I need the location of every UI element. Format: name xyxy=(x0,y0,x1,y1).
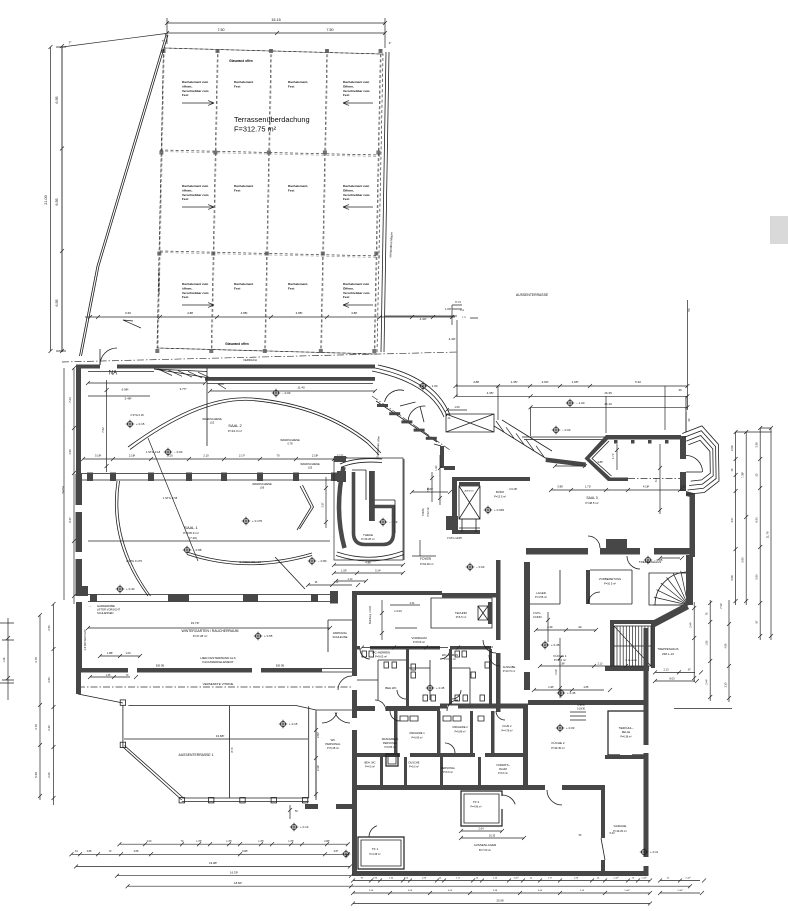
svg-text:4.95: 4.95 xyxy=(724,643,727,648)
wc fixtures xyxy=(362,651,367,657)
bottom outer walls xyxy=(352,791,357,876)
svg-text:19.08³: 19.08³ xyxy=(209,861,217,865)
svg-text:→: → xyxy=(89,604,92,608)
svg-text:+ 0.55: + 0.55 xyxy=(264,634,273,638)
svg-text:Terrassenüberdachung: Terrassenüberdachung xyxy=(234,115,310,124)
svg-text:8.03: 8.03 xyxy=(669,677,675,681)
bottom building dim rows xyxy=(351,879,652,883)
buero left wall xyxy=(452,481,457,532)
wall kueche west xyxy=(524,562,530,690)
bottom dim row1 xyxy=(117,842,349,846)
wc mid wall xyxy=(354,646,491,650)
wall y787 xyxy=(352,785,605,790)
svg-text:WANDSCHIENE: WANDSCHIENE xyxy=(300,462,320,466)
svg-text:4.18³: 4.18³ xyxy=(643,485,649,489)
svg-text:− 1.00: − 1.00 xyxy=(576,401,585,405)
svg-text:5.68: 5.68 xyxy=(730,575,734,581)
svg-text:10.33: 10.33 xyxy=(489,834,496,838)
svg-text:L=0.94: L=0.94 xyxy=(394,610,402,613)
svg-text:Fest: Fest xyxy=(234,286,240,290)
svg-text:3 STG: 3 STG xyxy=(533,611,541,615)
svg-text:+ 0.03: + 0.03 xyxy=(566,726,575,730)
svg-text:TK 2: TK 2 xyxy=(473,800,480,804)
svg-text:AUFZUG: AUFZUG xyxy=(465,490,474,493)
svg-text:1.78³: 1.78³ xyxy=(258,840,264,843)
svg-text:16.35: 16.35 xyxy=(604,391,612,395)
right lower dims xyxy=(692,602,696,682)
svg-text:AUSGABE: AUSGABE xyxy=(503,665,516,669)
east wall lower xyxy=(644,628,649,706)
svg-text:2.18¹: 2.18¹ xyxy=(312,454,318,458)
svg-text:SAAL 3: SAAL 3 xyxy=(586,496,597,500)
saal3 left bay xyxy=(585,435,612,481)
svg-text:2.48³: 2.48³ xyxy=(548,686,554,689)
svg-text:U=1.88: U=1.88 xyxy=(509,488,517,491)
svg-text:GARDEROBE L01: GARDEROBE L01 xyxy=(239,560,261,564)
svg-text:P=4.55 m²: P=4.55 m² xyxy=(535,595,547,599)
svg-text:Fest: Fest xyxy=(288,84,294,88)
svg-text:2.44³: 2.44³ xyxy=(625,889,630,892)
svg-text:KÜCHE 2: KÜCHE 2 xyxy=(551,741,564,745)
svg-text:4.88²: 4.88² xyxy=(296,311,303,315)
svg-text:4.44: 4.44 xyxy=(410,602,415,605)
saal1 mid line xyxy=(88,540,330,542)
svg-text:Verschiebbar zum: Verschiebbar zum xyxy=(343,193,370,197)
svg-text:Verschiebbar zum: Verschiebbar zum xyxy=(182,291,209,295)
svg-text:3.70: 3.70 xyxy=(34,724,38,730)
svg-text:1.26: 1.26 xyxy=(3,657,6,662)
svg-text:GARAGE: GARAGE xyxy=(614,824,627,828)
saal1 diagonal section line xyxy=(148,438,198,561)
svg-text:1.78³: 1.78³ xyxy=(196,840,202,843)
svg-text:FLUR 2: FLUR 2 xyxy=(503,724,512,728)
svg-text:ZIM 1–10: ZIM 1–10 xyxy=(662,652,674,656)
theke bottom arcs xyxy=(336,551,404,561)
technik room xyxy=(431,598,492,628)
svg-text:+ 0.45: + 0.45 xyxy=(551,643,560,647)
svg-text:SCHLEUSE: SCHLEUSE xyxy=(332,635,347,639)
dimension row under canopy y=317 xyxy=(85,315,455,319)
svg-text:P=10.74 m²: P=10.74 m² xyxy=(503,670,516,673)
stair block walls xyxy=(610,620,655,624)
svg-text:P=4.78 m²: P=4.78 m² xyxy=(501,730,512,733)
svg-text:RAUM: RAUM xyxy=(499,767,507,771)
svg-text:1.88³: 1.88³ xyxy=(107,651,113,655)
svg-text:+ 0.11: + 0.11 xyxy=(650,850,659,854)
treppenhaus doors xyxy=(627,556,640,569)
svg-text:54.54: 54.54 xyxy=(61,486,65,493)
svg-text:0.60: 0.60 xyxy=(125,311,131,315)
svg-text:P=91.3 m²: P=91.3 m² xyxy=(228,429,242,433)
svg-text:8.47: 8.47 xyxy=(68,517,72,523)
svg-text:Verschiebbar zum: Verschiebbar zum xyxy=(343,89,370,93)
svg-text:3.38: 3.38 xyxy=(755,442,759,448)
svg-text:− 0.03: − 0.03 xyxy=(282,391,291,395)
svg-text:P=6.38 m²: P=6.38 m² xyxy=(620,736,631,739)
theke counter G xyxy=(339,467,345,548)
svg-text:6.98³: 6.98³ xyxy=(122,388,129,392)
svg-text:P=9.88 m²: P=9.88 m² xyxy=(454,731,465,734)
svg-text:7.62: 7.62 xyxy=(101,427,105,433)
svg-text:4.88²: 4.88² xyxy=(241,311,248,315)
svg-text:P=8.4 m²: P=8.4 m² xyxy=(427,507,430,517)
svg-text:2.60: 2.60 xyxy=(47,772,51,778)
svg-text:P=9.63 m²: P=9.63 m² xyxy=(375,655,387,659)
svg-text:öffnen,: öffnen, xyxy=(182,286,192,290)
svg-text:Dachelement: Dachelement xyxy=(234,80,253,84)
svg-text:P=47.28 m²: P=47.28 m² xyxy=(193,634,208,638)
svg-text:5.48³: 5.48³ xyxy=(125,397,132,401)
theke small left block xyxy=(334,456,346,462)
svg-text:Fest: Fest xyxy=(182,197,188,201)
svg-text:Fest: Fest xyxy=(343,93,349,97)
svg-text:Fest: Fest xyxy=(343,197,349,201)
svg-text:Dachelement zum: Dachelement zum xyxy=(343,80,370,84)
svg-text:VORRATS–: VORRATS– xyxy=(496,763,510,767)
svg-text:2.34³: 2.34³ xyxy=(316,765,320,771)
svg-text:+ 0.045: + 0.045 xyxy=(494,508,504,512)
svg-text:SCHLIESSEN: SCHLIESSEN xyxy=(97,611,114,615)
inner parapet wall xyxy=(205,377,375,381)
left wall saal1/saal2 xyxy=(76,369,81,475)
svg-text:2 STG 0.18: 2 STG 0.18 xyxy=(130,413,144,417)
svg-text:(7.26): (7.26) xyxy=(189,536,197,540)
svg-text:B30 DB: B30 DB xyxy=(276,665,285,668)
svg-text:Belüftung L=0.94: Belüftung L=0.94 xyxy=(369,605,372,624)
svg-text:L02: L02 xyxy=(210,421,215,425)
chevron wall piece xyxy=(297,485,314,530)
svg-text:P=64.48 m²: P=64.48 m² xyxy=(420,562,434,566)
entrance curved glass wall xyxy=(375,368,447,416)
svg-text:1.00³: 1.00³ xyxy=(445,307,451,311)
svg-text:P=8.09 m²: P=8.09 m² xyxy=(413,640,425,644)
tiefkuehlzelle xyxy=(608,711,645,755)
svg-text:P=4.96 m²: P=4.96 m² xyxy=(470,806,481,809)
svg-text:Dachelement zum: Dachelement zum xyxy=(343,282,370,286)
scan artifact right edge xyxy=(770,216,788,244)
svg-text:1.78³: 1.78³ xyxy=(288,840,294,843)
wc doors xyxy=(397,690,406,699)
svg-text:5.32: 5.32 xyxy=(635,380,641,384)
svg-text:1.71¹: 1.71¹ xyxy=(585,485,591,489)
left dimension chain 21.00 xyxy=(61,46,63,352)
saal2 top small dims xyxy=(86,381,207,396)
svg-text:1.03³: 1.03³ xyxy=(341,569,347,573)
spiral stair xyxy=(649,573,688,605)
svg-text:öffnen,: öffnen, xyxy=(182,84,192,88)
svg-text:2.13: 2.13 xyxy=(598,663,603,666)
svg-text:UMKLEIDE 1: UMKLEIDE 1 xyxy=(409,731,425,735)
svg-text:1.45: 1.45 xyxy=(106,674,111,677)
svg-text:2.88³: 2.88³ xyxy=(324,840,330,843)
canopy bottom dash-dot line (VERDACH) xyxy=(62,352,458,362)
svg-text:3.18³: 3.18³ xyxy=(95,454,101,458)
svg-text:P=105.9 m²: P=105.9 m² xyxy=(183,531,199,535)
svg-text:1.65³: 1.65³ xyxy=(572,380,579,384)
svg-text:+ 0.45: + 0.45 xyxy=(436,686,445,690)
svg-text:2.10: 2.10 xyxy=(203,454,209,458)
svg-text:VERSENKTE VITRINE: VERSENKTE VITRINE xyxy=(203,682,234,686)
TK2 box xyxy=(461,791,502,826)
steps to saal3 xyxy=(494,420,552,459)
svg-text:Dachelement zum: Dachelement zum xyxy=(182,80,209,84)
svg-text:7.08: 7.08 xyxy=(427,487,430,492)
svg-text:1.09: 1.09 xyxy=(454,405,460,409)
svg-text:TECHNIK: TECHNIK xyxy=(455,611,467,615)
svg-text:1.71¹: 1.71¹ xyxy=(611,453,615,459)
saal3 right wall xyxy=(680,436,686,459)
svg-text:19.73³: 19.73³ xyxy=(191,621,200,625)
svg-text:3.88: 3.88 xyxy=(557,485,563,489)
svg-text:− 1.00: − 1.00 xyxy=(429,384,438,388)
svg-text:WASCHBECK: WASCHBECK xyxy=(382,737,399,741)
versenkte vitrine dash line xyxy=(78,686,352,688)
svg-text:Dachelement: Dachelement xyxy=(234,184,253,188)
svg-text:P=10.5 m²: P=10.5 m² xyxy=(604,582,616,586)
svg-text:2.88: 2.88 xyxy=(584,686,589,689)
svg-text:LÜF 54: LÜF 54 xyxy=(485,646,494,649)
svg-text:− 0.80: − 0.80 xyxy=(318,559,327,563)
svg-text:TREPPENHAUS: TREPPENHAUS xyxy=(658,647,679,651)
dusche shower square xyxy=(386,754,398,766)
svg-text:P=6.96 m²: P=6.96 m² xyxy=(411,737,422,740)
svg-text:P=5.48 m²: P=5.48 m² xyxy=(327,746,339,750)
svg-text:1 STG 17/8: 1 STG 17/8 xyxy=(163,496,178,500)
svg-text:2.44³: 2.44³ xyxy=(690,622,693,628)
svg-text:− 0.03: − 0.03 xyxy=(562,428,571,432)
svg-text:UMKLEIDE 2: UMKLEIDE 2 xyxy=(452,725,468,729)
svg-text:+ 0.15: + 0.15 xyxy=(136,422,145,426)
svg-text:11.40: 11.40 xyxy=(297,386,305,390)
svg-text:4.00: 4.00 xyxy=(147,840,152,843)
svg-text:1.32¹: 1.32¹ xyxy=(435,465,438,471)
svg-text:WANDSCHIENE: WANDSCHIENE xyxy=(252,482,272,486)
treppenhaus right wall xyxy=(686,555,693,605)
svg-text:1.50: 1.50 xyxy=(68,449,72,455)
svg-text:Glaswand offen: Glaswand offen xyxy=(225,342,249,346)
svg-text:P=13.5 m²: P=13.5 m² xyxy=(494,495,506,499)
svg-text:7.63: 7.63 xyxy=(68,397,72,403)
left lower wall piece xyxy=(76,672,81,694)
svg-text:0.78: 0.78 xyxy=(287,442,293,446)
column band xyxy=(81,474,345,481)
svg-text:1.85: 1.85 xyxy=(706,640,709,645)
top dimension lines 15.15 / 7.50 xyxy=(165,18,387,28)
svg-text:+ 0.13: + 0.13 xyxy=(300,825,309,829)
svg-text:2.10: 2.10 xyxy=(167,454,173,458)
left mid dim chain xyxy=(72,366,76,604)
svg-text:3.88: 3.88 xyxy=(134,850,139,853)
svg-text:Dachelement zum: Dachelement zum xyxy=(182,184,209,188)
svg-text:6.95: 6.95 xyxy=(55,199,59,206)
svg-text:WANDSCHIENE: WANDSCHIENE xyxy=(202,417,222,421)
svg-text:Verschiebbar offen: Verschiebbar offen xyxy=(157,269,161,294)
svg-text:21.00: 21.00 xyxy=(44,195,48,205)
svg-text:AUSSENTERRASSE 1: AUSSENTERRASSE 1 xyxy=(178,753,213,757)
wc partitions xyxy=(406,649,409,707)
elevator small xyxy=(478,606,488,620)
svg-text:3.87: 3.87 xyxy=(334,850,339,853)
svg-text:16.33³: 16.33³ xyxy=(230,870,238,874)
svg-text:3.14³: 3.14³ xyxy=(375,569,381,573)
svg-text:Dachelement,: Dachelement, xyxy=(288,282,308,286)
svg-text:4.88: 4.88 xyxy=(365,561,371,565)
svg-text:TE 88 6.84/24: TE 88 6.84/24 xyxy=(625,660,638,662)
saal2 level marks xyxy=(126,420,145,428)
bottom right small dims xyxy=(658,879,706,896)
svg-text:P=6.5 m²: P=6.5 m² xyxy=(456,615,467,619)
svg-text:3.70: 3.70 xyxy=(34,657,38,663)
svg-text:2-6 WINTERPLATZ: 2-6 WINTERPLATZ xyxy=(84,629,87,650)
site boundary line xyxy=(80,35,169,356)
NA door xyxy=(99,349,101,365)
svg-text:L05: L05 xyxy=(308,466,313,470)
svg-text:3.88: 3.88 xyxy=(597,460,603,464)
svg-text:FACHWERKELEMENT: FACHWERKELEMENT xyxy=(202,660,233,664)
svg-text:2.10: 2.10 xyxy=(348,578,353,581)
elevator xyxy=(459,486,480,519)
svg-text:8.70: 8.70 xyxy=(230,747,234,753)
svg-text:P=39.45 m²: P=39.45 m² xyxy=(551,746,565,750)
svg-text:Fest: Fest xyxy=(182,295,188,299)
extra dims kueche1 xyxy=(532,612,612,692)
saal3 bottom wall xyxy=(526,548,695,555)
svg-text:2.57: 2.57 xyxy=(322,502,325,507)
central wall xyxy=(352,595,357,810)
svg-text:2.60³: 2.60³ xyxy=(542,380,549,384)
svg-text:GARDEROBE: GARDEROBE xyxy=(97,604,115,608)
svg-text:P=48.5 m²: P=48.5 m² xyxy=(586,501,599,505)
TK1 box xyxy=(358,837,404,869)
svg-text:PERSONAL: PERSONAL xyxy=(383,741,398,745)
svg-text:TREPPENHAUS: TREPPENHAUS xyxy=(639,560,662,564)
svg-text:− 0.03: − 0.03 xyxy=(476,565,485,569)
svg-text:2.18³: 2.18³ xyxy=(129,454,135,458)
svg-text:6.95: 6.95 xyxy=(55,97,59,104)
ramp with X xyxy=(446,414,494,432)
svg-text:THEKE: THEKE xyxy=(363,533,373,537)
svg-text:44¹: 44¹ xyxy=(578,625,582,629)
terrace posts xyxy=(120,700,125,705)
svg-text:6.93: 6.93 xyxy=(755,517,759,523)
svg-text:+ 0.175: + 0.175 xyxy=(252,519,262,523)
svg-text:AUSSENTERRASSE: AUSSENTERRASSE xyxy=(516,293,549,297)
svg-text:5.68: 5.68 xyxy=(34,772,38,778)
svg-text:DUSCHE: DUSCHE xyxy=(409,761,420,765)
svg-text:− 0.03: − 0.03 xyxy=(174,450,183,454)
svg-text:8.88³: 8.88³ xyxy=(242,850,248,853)
svg-text:L06: L06 xyxy=(260,486,265,490)
svg-text:Fest: Fest xyxy=(288,188,294,192)
svg-text:2.13: 2.13 xyxy=(663,668,669,672)
svg-text:2.44³: 2.44³ xyxy=(678,889,683,892)
svg-text:P=6.85 m²: P=6.85 m² xyxy=(384,746,395,749)
svg-text:3.53³: 3.53³ xyxy=(730,445,734,451)
svg-text:50: 50 xyxy=(687,308,691,312)
svg-text:BEH. WC: BEH. WC xyxy=(364,761,375,765)
svg-text:AUSSENLAGER: AUSSENLAGER xyxy=(474,843,497,847)
svg-text:2.50: 2.50 xyxy=(47,625,51,631)
svg-text:Dachelement zum: Dachelement zum xyxy=(343,184,370,188)
svg-text:FOYER: FOYER xyxy=(420,557,432,561)
svg-text:B=7.00 m²: B=7.00 m² xyxy=(479,848,491,852)
terrace right small dims xyxy=(314,712,318,798)
svg-text:0.18/30: 0.18/30 xyxy=(577,708,586,711)
svg-text:3.50: 3.50 xyxy=(47,677,51,683)
svg-text:4.35³: 4.35³ xyxy=(487,391,494,395)
svg-text:WANDSCHIENE: WANDSCHIENE xyxy=(280,438,300,442)
left bottom dim chains xyxy=(38,613,42,800)
saal2 left vertical dim xyxy=(105,380,109,472)
svg-text:4.40³: 4.40³ xyxy=(420,317,427,321)
north facade wall xyxy=(76,365,375,369)
svg-text:Öffnen,: Öffnen, xyxy=(343,286,354,290)
stair treads xyxy=(614,626,651,666)
door arcs terrace wall xyxy=(322,713,337,724)
saal2 big curve xyxy=(128,398,381,453)
svg-text:Dachelement: Dachelement xyxy=(234,282,253,286)
svg-text:BÜRO: BÜRO xyxy=(496,490,505,494)
svg-text:16.10: 16.10 xyxy=(604,402,612,406)
wc block top wall xyxy=(352,591,442,595)
canopy terrace roof grid xyxy=(155,48,383,354)
svg-text:Dachelement,: Dachelement, xyxy=(288,80,308,84)
svg-text:2.60³: 2.60³ xyxy=(316,732,320,738)
svg-text:SAAL 1: SAAL 1 xyxy=(184,525,198,530)
svg-text:5.60: 5.60 xyxy=(755,574,759,580)
svg-text:P=4.5 m²: P=4.5 m² xyxy=(365,766,375,769)
kueche1 area interior dims xyxy=(558,638,562,698)
canopy right boundary wall xyxy=(381,52,389,352)
svg-text:18.60³: 18.60³ xyxy=(234,881,242,885)
room verticals row1 xyxy=(394,711,398,753)
svg-text:25.08: 25.08 xyxy=(497,899,504,903)
svg-text:4.88: 4.88 xyxy=(473,380,479,384)
svg-text:4.88: 4.88 xyxy=(351,311,357,315)
svg-text:2.17¹: 2.17¹ xyxy=(239,454,245,458)
svg-text:BEH.WC: BEH.WC xyxy=(385,686,396,690)
svg-text:VORRAUM: VORRAUM xyxy=(411,636,427,640)
theke boundary xyxy=(334,458,403,560)
bay connector wall xyxy=(546,458,587,468)
svg-text:Verschiebbar zum: Verschiebbar zum xyxy=(182,193,209,197)
svg-text:4.40³: 4.40³ xyxy=(449,337,456,341)
saal1 bottom band xyxy=(88,595,330,602)
diagonal wall to lower block xyxy=(650,603,689,628)
saal3 top wall xyxy=(606,435,681,440)
svg-text:+ 0.40: + 0.40 xyxy=(126,587,135,591)
svg-text:2.44³: 2.44³ xyxy=(614,877,619,880)
svg-text:70: 70 xyxy=(276,454,280,458)
svg-text:Dachelement,: Dachelement, xyxy=(288,184,308,188)
svg-text:öffnen,: öffnen, xyxy=(182,188,192,192)
svg-text:Fest: Fest xyxy=(182,93,188,97)
svg-text:PERSONAL: PERSONAL xyxy=(325,742,341,746)
svg-text:7.43³: 7.43³ xyxy=(720,603,723,609)
buero top wall xyxy=(452,477,530,481)
svg-text:2.30: 2.30 xyxy=(47,725,51,731)
svg-text:+ 0.45: + 0.45 xyxy=(567,691,576,695)
svg-text:1.35²: 1.35² xyxy=(511,380,518,384)
svg-text:4.88: 4.88 xyxy=(187,311,193,315)
svg-text:1.35: 1.35 xyxy=(680,485,686,489)
svg-text:3.88: 3.88 xyxy=(87,850,92,853)
svg-text:7.50: 7.50 xyxy=(327,28,334,32)
svg-text:Fest: Fest xyxy=(234,188,240,192)
svg-text:3.30: 3.30 xyxy=(724,682,727,687)
theke dark bar xyxy=(369,471,375,521)
svg-text:11.78: 11.78 xyxy=(765,531,769,538)
